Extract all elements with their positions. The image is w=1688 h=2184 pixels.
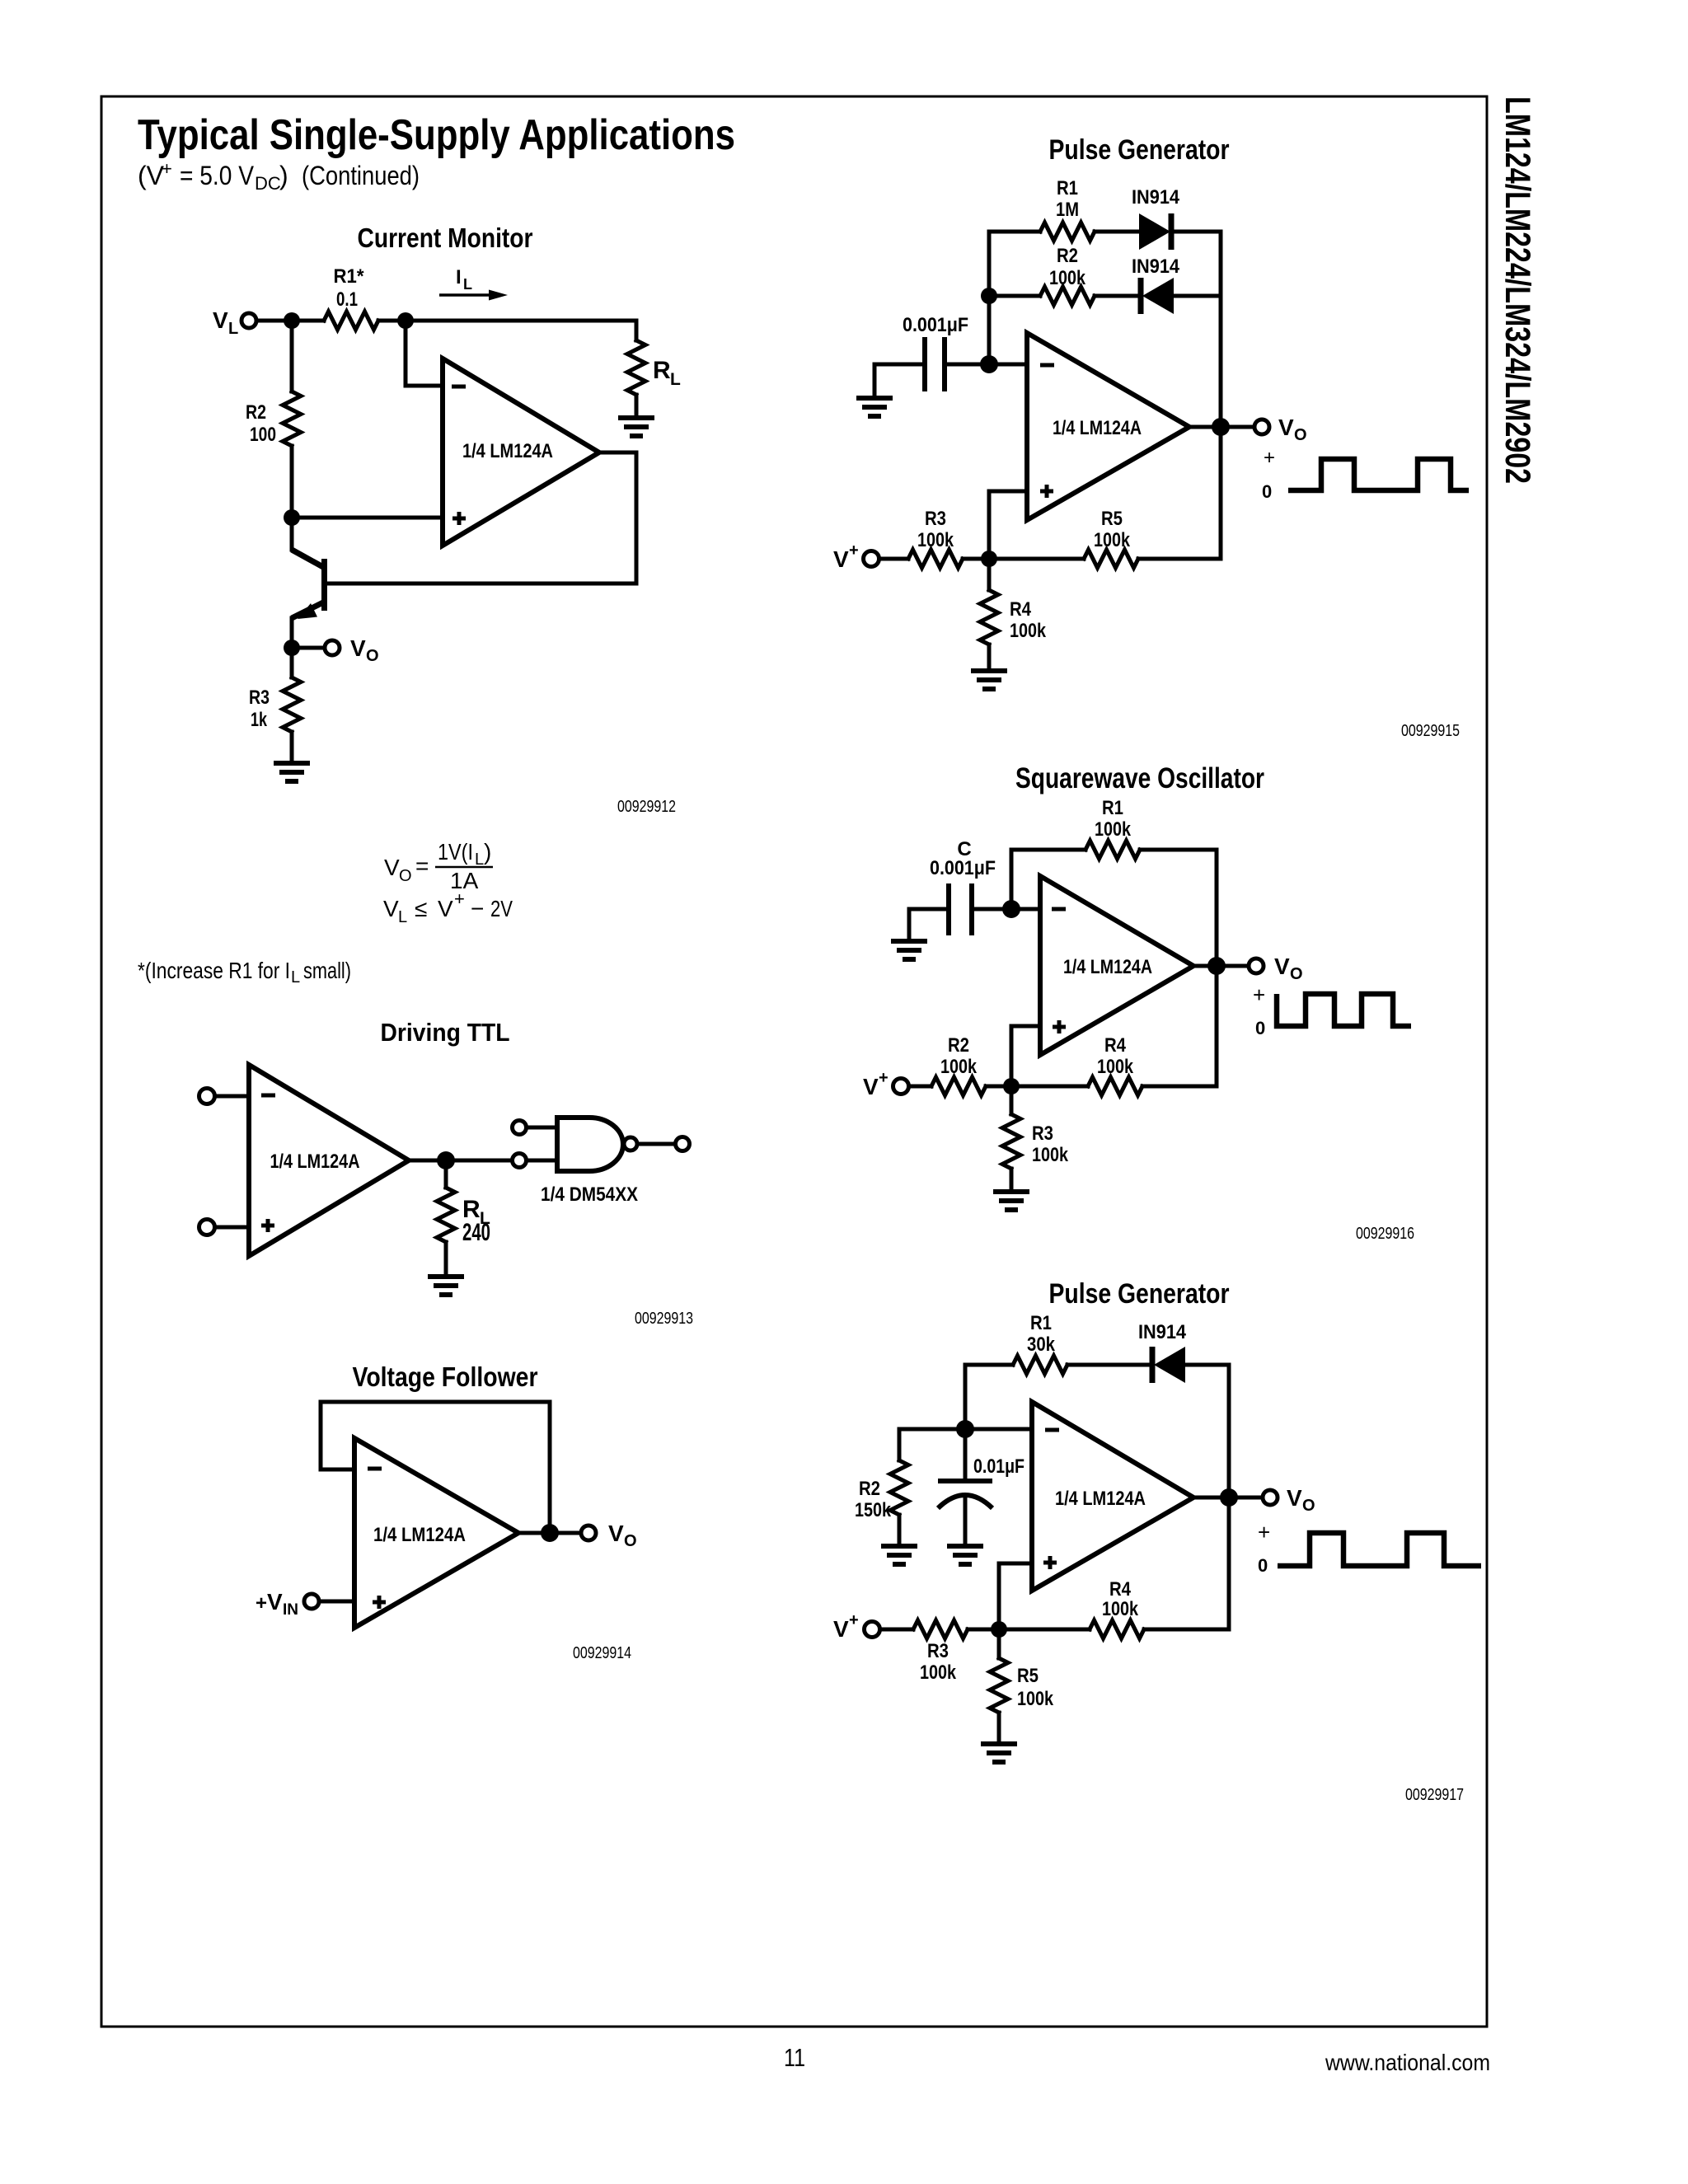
resistor R3 value label R3 1k	[249, 687, 270, 731]
node VL terminal	[241, 313, 256, 328]
node V+ label	[863, 1069, 889, 1099]
svg-text:= 5.0 V: = 5.0 V	[180, 161, 255, 190]
svg-text:R2: R2	[1057, 245, 1078, 267]
node VO label	[1278, 415, 1307, 444]
svg-text:R5: R5	[1101, 508, 1123, 530]
resistor R2	[909, 1077, 1003, 1095]
svg-text:Typical Single-Supply Applicat: Typical Single-Supply Applications	[138, 111, 735, 159]
wire plus input	[215, 1226, 249, 1230]
node VO terminal	[325, 640, 340, 655]
svg-text:L: L	[291, 968, 300, 987]
svg-text:O: O	[1290, 965, 1303, 983]
svg-text:100k: 100k	[1094, 529, 1131, 551]
op-amp U1 1/4 LM124A	[443, 359, 599, 546]
wire op-amp output	[1193, 1496, 1263, 1500]
resistor R4 value label R4 100k	[1097, 1034, 1134, 1078]
svg-text:2V: 2V	[490, 896, 513, 921]
svg-text:R1: R1	[1057, 177, 1078, 199]
svg-text:00929915: 00929915	[1401, 722, 1460, 740]
resistor R3 value label R3 100k	[917, 508, 954, 551]
svg-text:1M: 1M	[1056, 199, 1079, 221]
node VO label	[1287, 1485, 1315, 1515]
svg-text:L: L	[228, 320, 238, 338]
junction output node	[1207, 957, 1226, 975]
resistor R4	[980, 567, 998, 671]
svg-text:small): small)	[303, 958, 351, 983]
svg-text:Current Monitor: Current Monitor	[358, 223, 533, 253]
junction output node	[1220, 1488, 1238, 1507]
svg-text:100k: 100k	[1097, 1056, 1134, 1078]
svg-text:100k: 100k	[1095, 818, 1132, 841]
svg-text:≤: ≤	[415, 896, 427, 921]
waveform pulse output	[1288, 459, 1469, 490]
node VL label	[213, 307, 238, 338]
wire node B to op-amp minus input	[406, 329, 443, 386]
resistor R3	[1002, 1094, 1020, 1192]
svg-text:V: V	[833, 1616, 849, 1642]
ground below R3	[993, 1192, 1029, 1210]
svg-text:IN914: IN914	[1132, 255, 1180, 278]
resistor R5	[990, 1638, 1008, 1744]
node +VIN label	[256, 1589, 298, 1619]
junction node D	[284, 640, 300, 656]
svg-text:0.001μF: 0.001μF	[903, 314, 968, 336]
op-amp U1 minus sign	[1045, 1428, 1059, 1432]
terminal minus input	[199, 1089, 215, 1104]
op-amp U1 plus sign	[1043, 1556, 1057, 1569]
junction node minus input	[956, 1420, 974, 1438]
resistor R4 value label R4 100k	[1010, 598, 1047, 642]
svg-text:V: V	[1274, 954, 1290, 979]
svg-text:100k: 100k	[917, 529, 954, 551]
wire NAND output	[637, 1142, 675, 1146]
svg-text:100k: 100k	[940, 1056, 978, 1078]
wire +VIN to plus input	[319, 1600, 354, 1604]
junction node plus input	[991, 1621, 1007, 1638]
svg-text:+: +	[454, 888, 465, 909]
resistor R4 value label R4 100k	[1102, 1578, 1139, 1620]
resistor RL label	[653, 357, 681, 389]
svg-text:1/4 LM124A: 1/4 LM124A	[1063, 956, 1152, 978]
svg-text:100k: 100k	[920, 1661, 957, 1684]
NAND gate U2 1/4 DM54XX	[557, 1118, 623, 1171]
svg-text:DC: DC	[255, 173, 281, 194]
svg-text:Voltage Follower: Voltage Follower	[353, 1361, 538, 1392]
svg-text:V: V	[833, 546, 849, 572]
svg-text:100k: 100k	[1032, 1144, 1069, 1166]
wire ground to capacitor C	[909, 909, 946, 941]
resistor R5 value label R5 100k	[1017, 1665, 1054, 1710]
svg-text:+: +	[256, 1592, 267, 1615]
svg-text:V: V	[1287, 1485, 1302, 1511]
resistor R1	[1011, 841, 1217, 859]
node VO terminal	[1254, 419, 1269, 434]
wire node B to RL	[406, 319, 636, 323]
svg-text:O: O	[366, 647, 379, 665]
transistor Q1	[292, 518, 325, 648]
resistor R1 value label R1 30k	[1027, 1312, 1056, 1356]
svg-text:IN914: IN914	[1132, 186, 1180, 209]
svg-text:1/4 LM124A: 1/4 LM124A	[462, 440, 553, 462]
svg-text:R1*: R1*	[334, 265, 365, 288]
capacitor C 0.001uF	[949, 883, 1003, 935]
svg-text:00929912: 00929912	[617, 798, 676, 816]
svg-text:0: 0	[1255, 1018, 1265, 1038]
junction node C	[284, 509, 300, 526]
svg-text:www.national.com: www.national.com	[1325, 2050, 1490, 2075]
svg-text:00929917: 00929917	[1405, 1786, 1464, 1804]
svg-text:+: +	[1264, 447, 1275, 469]
svg-text:Squarewave Oscillator: Squarewave Oscillator	[1015, 762, 1264, 794]
junction node minus input	[980, 355, 998, 373]
wire NAND lower input	[527, 1159, 557, 1163]
wire node to op-amp minus input	[965, 1427, 1032, 1432]
junction output node	[437, 1151, 455, 1169]
svg-text:+: +	[1258, 1520, 1270, 1544]
op-amp U1 plus sign	[1040, 485, 1053, 498]
wire op-amp output to NAND input	[409, 1159, 512, 1163]
node VO terminal	[581, 1526, 596, 1540]
ground at capacitor C	[891, 941, 927, 959]
wire right rail bottom	[1219, 427, 1223, 559]
wire node to op-amp minus input	[1011, 907, 1040, 912]
resistor R5 value label R5 100k	[1094, 508, 1131, 551]
svg-text:0.001μF: 0.001μF	[930, 857, 996, 879]
svg-text:150k: 150k	[855, 1499, 892, 1521]
resistor R1	[989, 223, 1139, 241]
svg-text:00929916: 00929916	[1356, 1225, 1414, 1243]
wire feedback loop	[321, 1402, 550, 1533]
node V+ terminal	[865, 1622, 880, 1638]
resistor R1 value label R1* 0.1	[334, 265, 365, 311]
wire op-amp output to transistor base	[327, 452, 636, 583]
svg-text:R2: R2	[859, 1478, 880, 1500]
wire op-amp plus input	[999, 1563, 1032, 1629]
svg-text:11: 11	[784, 2043, 805, 2072]
resistor R1 value label R1 100k	[1095, 797, 1132, 841]
wire op-amp output	[518, 1531, 581, 1535]
svg-text:R3: R3	[249, 687, 270, 709]
op-amp U1 minus sign	[1040, 363, 1054, 368]
svg-text:*(Increase R1 for I: *(Increase R1 for I	[138, 958, 290, 983]
node VO label	[608, 1521, 637, 1550]
op-amp U1 1/4 LM124A	[1027, 333, 1189, 520]
op-amp U1 minus sign	[452, 385, 466, 389]
junction node B	[397, 312, 414, 329]
svg-text:R: R	[653, 357, 671, 384]
wire NAND upper input	[527, 1126, 557, 1130]
svg-text:1/4 LM124A: 1/4 LM124A	[373, 1524, 466, 1546]
svg-text:0.1: 0.1	[336, 288, 358, 311]
svg-text:V: V	[608, 1521, 624, 1546]
wire op-amp output	[1189, 425, 1254, 429]
resistor R1	[292, 312, 406, 330]
resistor RL	[437, 1169, 455, 1277]
wire op-amp plus input	[1011, 1026, 1040, 1086]
svg-text:1/4 LM124A: 1/4 LM124A	[1053, 417, 1142, 439]
junction node FB	[981, 288, 997, 304]
svg-text:O: O	[399, 867, 412, 885]
op-amp U1 minus sign	[261, 1094, 275, 1098]
svg-text:100k: 100k	[1102, 1598, 1139, 1620]
resistor RL	[627, 321, 645, 417]
op-amp U1 1/4 LM124A	[1032, 1402, 1193, 1591]
svg-text:(Continued): (Continued)	[302, 161, 420, 190]
wire op-amp output	[1193, 964, 1249, 968]
node VO label	[350, 635, 379, 665]
svg-text:1/4 DM54XX: 1/4 DM54XX	[541, 1183, 638, 1206]
svg-text:R1: R1	[1102, 797, 1123, 819]
svg-text:R4: R4	[1010, 598, 1032, 621]
svg-text:0: 0	[1258, 1555, 1268, 1576]
waveform squarewave output	[1277, 994, 1411, 1026]
svg-text:+: +	[879, 1069, 889, 1087]
svg-text:R5: R5	[1017, 1665, 1039, 1687]
ground below R5	[981, 1744, 1017, 1762]
resistor R2 value label R2 100	[246, 401, 276, 446]
svg-text:1/4 LM124A: 1/4 LM124A	[270, 1151, 360, 1173]
svg-text:1V(I: 1V(I	[438, 839, 473, 865]
wire node D to VO terminal	[292, 646, 325, 650]
wire right rail top	[1219, 232, 1223, 427]
wire right rail	[1215, 850, 1219, 1086]
wire left feedback rail	[1010, 850, 1014, 909]
svg-text:R3: R3	[925, 508, 946, 530]
svg-text:R4: R4	[1109, 1578, 1132, 1601]
svg-text:+: +	[849, 1611, 859, 1629]
wire right rail bottom	[1227, 1497, 1231, 1629]
terminal NAND output	[676, 1137, 690, 1151]
wire node to R2	[899, 1429, 965, 1460]
svg-text:V: V	[213, 307, 228, 333]
resistor R4	[1090, 1620, 1229, 1638]
wire left feedback rail	[987, 232, 992, 364]
node V+ label	[833, 1611, 859, 1642]
svg-text:L: L	[398, 908, 407, 926]
svg-text:V: V	[384, 855, 400, 880]
waveform pulse output	[1278, 1533, 1481, 1566]
svg-text:O: O	[1302, 1497, 1315, 1515]
op-amp U1 minus sign	[1052, 907, 1066, 912]
resistor R3	[879, 550, 981, 568]
terminal NAND input open circle upper	[513, 1121, 527, 1135]
capacitor C1 0.01uF	[938, 1437, 992, 1546]
diode D2 IN914	[1141, 278, 1221, 314]
svg-text:−: −	[471, 896, 484, 921]
junction node A	[284, 312, 300, 329]
svg-text:R2: R2	[948, 1034, 969, 1057]
ground at capacitor C1	[856, 398, 893, 416]
resistor R4	[1088, 1077, 1217, 1095]
capacitor C label	[930, 838, 996, 879]
resistor R1 value label R1 1M	[1056, 177, 1079, 221]
svg-text:I: I	[456, 266, 462, 288]
wire right rail top	[1227, 1365, 1231, 1497]
svg-text:0.01μF: 0.01μF	[973, 1455, 1025, 1478]
ground below R3	[274, 763, 310, 781]
svg-text:R4: R4	[1104, 1034, 1127, 1057]
svg-text:V: V	[1278, 415, 1294, 440]
op-amp U1 minus sign	[368, 1467, 382, 1471]
resistor R2	[989, 287, 1141, 305]
resistor R1	[965, 1356, 1151, 1374]
svg-text:+: +	[162, 158, 172, 179]
op-amp U1 plus sign	[261, 1219, 274, 1232]
svg-text:100k: 100k	[1049, 267, 1086, 289]
node V+ terminal	[893, 1079, 909, 1094]
NAND gate inversion bubble	[624, 1137, 637, 1151]
svg-text:V: V	[350, 635, 366, 661]
wire node to R4	[999, 1628, 1090, 1632]
junction output node	[541, 1524, 559, 1542]
svg-text:V: V	[383, 896, 399, 921]
svg-text:LM124/LM224/LM324/LM2902: LM124/LM224/LM324/LM2902	[1498, 96, 1537, 484]
ground below capacitor C1	[947, 1546, 983, 1564]
resistor RL value label RL 240	[462, 1196, 490, 1246]
svg-text:L: L	[463, 276, 472, 293]
op-amp U1 plus sign	[1053, 1020, 1066, 1033]
ground below RL	[618, 418, 654, 436]
op-amp U1 plus sign	[373, 1596, 386, 1609]
ground below RL	[428, 1277, 464, 1295]
node +VIN terminal	[304, 1594, 319, 1609]
svg-text:): )	[279, 161, 288, 190]
junction node minus input	[1002, 900, 1020, 918]
svg-text:R2: R2	[246, 401, 266, 424]
resistor R2 value label R2 100k	[1049, 245, 1086, 289]
wire left feedback rail	[964, 1365, 968, 1429]
node VO label	[1274, 954, 1303, 983]
ground below R2	[881, 1546, 917, 1564]
capacitor C1 0.001uF	[925, 337, 981, 391]
op-amp U1 1/4 LM124A	[1040, 876, 1193, 1055]
svg-text:IN: IN	[283, 1601, 298, 1619]
svg-text:1k: 1k	[251, 709, 267, 731]
svg-text:): )	[484, 839, 491, 865]
svg-text:100: 100	[250, 424, 276, 446]
resistor R2	[283, 329, 301, 518]
node VO terminal	[1263, 1490, 1278, 1505]
svg-text:Driving TTL: Driving TTL	[381, 1018, 510, 1047]
svg-text:V: V	[267, 1589, 283, 1615]
resistor R5	[1084, 550, 1221, 568]
svg-text:L: L	[670, 370, 681, 389]
wire minus input	[215, 1094, 249, 1099]
wire node to op-amp minus input	[989, 363, 1027, 367]
svg-text:(V: (V	[138, 161, 165, 190]
wire node to R4	[1011, 1085, 1088, 1089]
svg-text:1/4 LM124A: 1/4 LM124A	[1055, 1488, 1146, 1510]
op-amp U1 plus sign	[452, 512, 466, 525]
svg-text:Pulse Generator: Pulse Generator	[1049, 134, 1230, 166]
diode D1 IN914	[1139, 213, 1221, 250]
svg-text:Pulse Generator: Pulse Generator	[1049, 1278, 1230, 1310]
junction node plus input	[981, 551, 997, 567]
svg-text:+: +	[849, 541, 859, 560]
svg-text:V: V	[863, 1074, 879, 1099]
svg-text:IN914: IN914	[1138, 1321, 1187, 1343]
resistor R2	[890, 1460, 908, 1546]
svg-text:0: 0	[1262, 481, 1272, 502]
wire VL to node A	[256, 319, 292, 323]
svg-text:240: 240	[462, 1219, 490, 1246]
wire op-amp plus input	[989, 491, 1027, 559]
wire node to R5	[989, 557, 1084, 561]
svg-text:=: =	[415, 853, 429, 879]
current IL label	[456, 266, 472, 293]
svg-text:00929914: 00929914	[573, 1644, 631, 1662]
resistor R2 value label R2 100k	[940, 1034, 978, 1078]
svg-text:100k: 100k	[1017, 1688, 1054, 1710]
svg-text:R3: R3	[927, 1640, 949, 1662]
svg-text:+: +	[1253, 982, 1265, 1007]
svg-text:00929913: 00929913	[635, 1310, 693, 1328]
diode D1 IN914	[1152, 1347, 1229, 1383]
op-amp U1 1/4 LM124A	[249, 1065, 409, 1256]
wire node C to op-amp plus input	[292, 516, 443, 520]
op-amp U1 1/4 LM124A	[354, 1438, 518, 1628]
resistor R3 value label R3 100k	[1032, 1122, 1069, 1166]
svg-text:100k: 100k	[1010, 620, 1047, 642]
junction node plus input	[1003, 1078, 1020, 1094]
ground below R4	[971, 671, 1007, 689]
resistor R3	[880, 1620, 991, 1638]
node V+ label	[833, 541, 859, 572]
junction output node	[1212, 418, 1230, 436]
wire ground to capacitor C1	[874, 364, 922, 398]
svg-text:O: O	[1294, 426, 1307, 444]
svg-text:L: L	[475, 851, 484, 869]
svg-text:V: V	[438, 896, 453, 921]
terminal NAND input open circle lower	[513, 1154, 527, 1168]
terminal plus input	[199, 1220, 215, 1235]
resistor R3	[283, 648, 301, 763]
node VO terminal	[1249, 958, 1264, 973]
resistor R2 value label R2 150k	[855, 1478, 892, 1521]
current IL arrow	[439, 290, 508, 301]
node V+ terminal	[864, 551, 879, 567]
svg-text:O: O	[624, 1532, 637, 1550]
svg-text:R3: R3	[1032, 1122, 1053, 1145]
svg-text:R1: R1	[1030, 1312, 1052, 1334]
svg-text:30k: 30k	[1027, 1333, 1056, 1356]
resistor R3 value label R3 100k	[920, 1640, 957, 1684]
